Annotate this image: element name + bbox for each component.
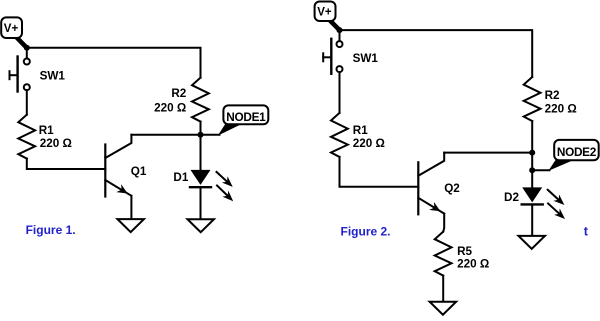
- D2 light arrow 2: [548, 204, 560, 215]
- LED D1 cathode bar: [190, 186, 211, 188]
- LED D2 triangle: [522, 187, 542, 202]
- resistor R5 (fig2): [435, 232, 452, 276]
- D1 light arrow 1: [217, 172, 228, 182]
- wire R1 bottom to Q2 base: [340, 157, 419, 187]
- node junction NODE1 (fig1): [198, 132, 204, 138]
- wire stub from junction to NODE1 flag: [201, 134, 220, 136]
- svg-text:V+: V+: [317, 6, 332, 18]
- ground at D2 cathode: [518, 236, 545, 249]
- wire Q1 emitter down to ground: [130, 196, 132, 219]
- svg-text:D1: D1: [173, 171, 188, 184]
- net flag NODE1: [218, 105, 268, 135]
- wire SW1 bottom terminal to R1 top: [26, 90, 28, 115]
- svg-text:t: t: [584, 225, 589, 239]
- resistor R2 (fig2): [524, 77, 541, 121]
- D1 light arrow 2: [217, 186, 228, 197]
- node junction at V+ tap (fig1): [24, 45, 30, 51]
- wire top rail fig1: V+ node to R2 branch corner: [27, 48, 201, 78]
- wire from V+ node down to SW1 top terminal (fig2): [339, 30, 341, 41]
- svg-text:V+: V+: [4, 23, 19, 35]
- ground at Q1 emitter: [117, 219, 144, 232]
- Q1 emitter diagonal: [105, 180, 131, 196]
- svg-text:D2: D2: [504, 191, 519, 204]
- wire D2 cathode to ground: [531, 205, 533, 236]
- resistor R1 (fig1): [18, 115, 35, 159]
- svg-text:R2: R2: [171, 87, 186, 100]
- wire Q2 emitter down to R5: [443, 214, 444, 232]
- svg-text:R1: R1: [353, 124, 368, 137]
- switch SW1 (fig2) pushbutton: [323, 39, 342, 74]
- wire R2 bottom to collector junction: [531, 121, 533, 153]
- svg-text:Q2: Q2: [444, 182, 460, 195]
- svg-text:220 Ω: 220 Ω: [457, 257, 489, 270]
- Q1 emitter arrowhead: [116, 184, 127, 193]
- transistor Q2 NPN base bar: [417, 162, 419, 214]
- wire R2 bottom to NODE1 junction: [200, 122, 202, 135]
- wire D1 cathode to ground: [200, 187, 202, 219]
- svg-text:NODE1: NODE1: [226, 110, 266, 124]
- resistor R2 (fig1): [192, 78, 209, 122]
- power flag V+ (fig2): [315, 2, 339, 29]
- svg-text:R1: R1: [39, 124, 54, 137]
- Q2 emitter arrowhead: [429, 202, 440, 211]
- svg-text:R2: R2: [545, 89, 560, 102]
- ground at D1 cathode: [187, 219, 214, 232]
- svg-text:Q1: Q1: [131, 165, 147, 178]
- wire R1 bottom to Q1 base: [27, 159, 106, 169]
- wire SW1 bottom terminal to R1 top (fig2): [339, 72, 341, 113]
- switch SW1 (fig1) pushbutton: [10, 57, 30, 92]
- svg-text:220 Ω: 220 Ω: [40, 137, 72, 150]
- wire NODE1 junction down to D1 anode: [200, 135, 202, 170]
- LED D2 cathode bar: [522, 203, 543, 205]
- wire top rail fig2: V+ node to R2 branch corner: [340, 30, 533, 77]
- svg-text:220 Ω: 220 Ω: [353, 137, 385, 150]
- transistor Q1 NPN base bar: [104, 145, 106, 197]
- LED D1 triangle: [191, 170, 211, 185]
- wire from V+ node down to SW1 top terminal: [26, 48, 28, 58]
- wire collector junction to NODE2 junction: [531, 153, 533, 171]
- ground at R5 (fig2): [430, 302, 457, 315]
- resistor R1 (fig2): [331, 113, 348, 157]
- Q2 emitter diagonal: [418, 198, 444, 214]
- svg-text:220 Ω: 220 Ω: [545, 102, 577, 115]
- D2 light arrow 1: [548, 190, 560, 200]
- svg-text:Figure 2.: Figure 2.: [341, 224, 391, 238]
- node junction at V+ tap (fig2): [337, 27, 343, 33]
- node junction NODE2 (fig2): [529, 167, 535, 173]
- power flag V+ (fig1): [1, 17, 25, 46]
- wire R5 bottom to ground: [442, 276, 444, 302]
- wire NODE2 junction down to D2 anode: [531, 170, 533, 187]
- svg-text:NODE2: NODE2: [557, 145, 597, 159]
- node junction R2/collector (fig2): [529, 150, 535, 156]
- wire Q1 collector to NODE1 junction: [131, 134, 200, 136]
- Q1 collector diagonal and riser: [105, 135, 131, 158]
- svg-text:SW1: SW1: [40, 69, 66, 82]
- Q2 collector diagonal and riser: [418, 153, 444, 176]
- svg-text:R5: R5: [457, 245, 472, 258]
- svg-text:Figure 1.: Figure 1.: [26, 223, 76, 237]
- svg-text:220 Ω: 220 Ω: [154, 102, 186, 115]
- wire Q2 collector to R2 junction: [444, 152, 532, 154]
- wire stub from junction to NODE2 flag: [532, 169, 549, 171]
- net flag NODE2: [548, 140, 598, 171]
- svg-text:SW1: SW1: [353, 52, 379, 65]
